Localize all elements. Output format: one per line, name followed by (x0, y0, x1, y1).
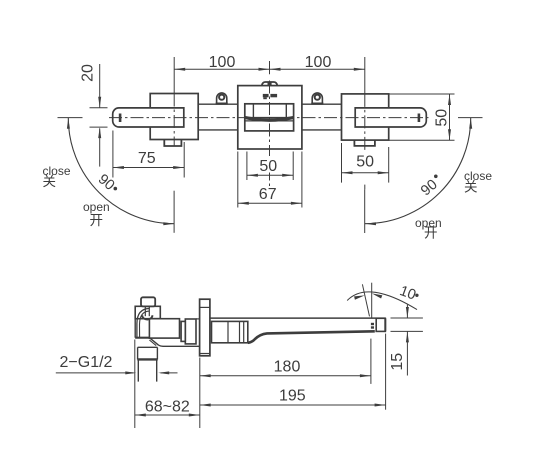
spout root box (212, 321, 248, 342)
svg-text:100: 100 (305, 54, 332, 71)
dimension 50 vertical right: extension lines (389, 94, 455, 140)
dimension 67: extension lines (238, 152, 302, 208)
dimension 100-100: dimension line (174, 68, 365, 70)
arrows of 180 (200, 374, 371, 377)
valve elbow inner arc (137, 309, 150, 338)
centerline right escutcheon vertical (364, 94, 366, 150)
valve stem lines (144, 307, 146, 317)
arrows of left arc (67, 118, 174, 225)
spout root partition 2 (239, 321, 241, 342)
svg-text:50: 50 (356, 154, 374, 171)
arrows of 20 (98, 97, 101, 138)
degree dot right (434, 175, 438, 179)
left 90 arc (68, 118, 174, 224)
centerline horizontal (top view) (109, 117, 430, 119)
spout underside (248, 331, 375, 343)
arrows of 195 (200, 404, 386, 407)
centerline right escutcheon lower dash (364, 185, 366, 190)
svg-text:67: 67 (259, 186, 277, 203)
svg-text:关: 关 (464, 180, 478, 195)
svg-text:195: 195 (279, 388, 306, 405)
10 degree tilted line (362, 284, 369, 316)
top bump right on center plate (271, 82, 278, 85)
arrows of 67 (238, 202, 302, 205)
right escutcheon bottom tab (354, 140, 375, 146)
svg-text:50: 50 (259, 158, 277, 175)
centerline left escutcheon vertical (173, 94, 175, 147)
right escutcheon plate (342, 94, 389, 140)
arrows of 50 vertical (448, 94, 451, 140)
spout root partition 1 (227, 321, 229, 342)
short pipe to wall (196, 318, 200, 320)
centerline center plate vertical mid (269, 173, 271, 187)
dimension 50 center: extension lines (247, 152, 293, 181)
spout aerator slot (371, 323, 374, 329)
right 90 arc (365, 118, 471, 224)
dimension 50 right: extension lines (342, 143, 389, 183)
valve stem seat arc (142, 315, 152, 319)
leader 2-G1/2 (56, 372, 178, 374)
valve chamfer diagonal 2 (149, 340, 156, 346)
spout inner partition right (285, 104, 287, 118)
wire: pipe between left escutcheon and center plate (198, 104, 238, 130)
spout aerator dark band (245, 116, 294, 122)
screw slot on center plate (263, 94, 277, 99)
10 degree reference vertical line (371, 283, 373, 318)
arrows of 2-G1/2 (125, 371, 169, 374)
arrows of 68~82 (135, 414, 200, 417)
left arc close tick (58, 117, 83, 119)
right arc close tick (458, 117, 483, 119)
spout outer box (245, 104, 294, 131)
arrows of 10 degree (354, 293, 382, 299)
spout inner shelf line (245, 117, 294, 119)
left escutcheon bottom tab (164, 140, 181, 147)
arrows of 50 center (247, 174, 293, 177)
spout inner partition left (252, 104, 254, 118)
left handle (rounded lever) (113, 108, 184, 127)
spout tip box (376, 318, 385, 331)
dimension 15: extension lines (391, 305, 423, 376)
valve body left edge (134, 319, 136, 338)
svg-text:180: 180 (274, 359, 301, 376)
arrows of right arc (365, 118, 472, 225)
left handle indicator tick (119, 114, 122, 123)
svg-text:75: 75 (138, 150, 156, 167)
dimension 180: extension line (200, 339, 371, 384)
wall flange top joint (200, 306, 210, 308)
spout tip end face (384, 318, 386, 331)
valve bottom ledge (135, 337, 149, 339)
wall flange (200, 299, 210, 356)
top bump left on center plate (262, 82, 269, 85)
right handle (rounded lever) (355, 108, 426, 127)
dimension 20: extension lines (90, 64, 108, 167)
inlet pipe (137, 347, 157, 381)
arrows of 50 right (342, 171, 389, 174)
svg-text:100: 100 (209, 54, 236, 71)
left arc open tick (173, 191, 175, 233)
dimension 75: extension lines (113, 131, 184, 178)
mounting ear left (216, 93, 228, 104)
wire: pipe between center plate and right escutcheon (302, 104, 342, 130)
spout top line (210, 317, 386, 319)
dimension 68~82: extension lines (135, 340, 200, 429)
svg-text:open: open (83, 200, 110, 214)
10 degree arc (347, 292, 417, 310)
valve underside line to wall (159, 345, 200, 346)
left escutcheon plate (150, 94, 198, 140)
connector block nut (185, 319, 196, 344)
svg-text:50: 50 (433, 109, 450, 127)
svg-text:2−G1/2: 2−G1/2 (60, 354, 113, 371)
dimension 195: extension line (200, 334, 386, 410)
valve elbow inner arc 2 (140, 311, 150, 337)
svg-text:20: 20 (80, 64, 97, 82)
svg-text:68~82: 68~82 (145, 399, 190, 416)
svg-text:15: 15 (389, 353, 406, 371)
arrows of 15 (406, 307, 409, 342)
valve cartridge barrel (149, 319, 179, 338)
center wall plate (238, 86, 302, 149)
svg-text:开: 开 (90, 213, 104, 228)
arrows of 75 (113, 166, 184, 169)
arrows of 100-100 (174, 68, 365, 71)
centerline center plate vertical (269, 81, 271, 157)
right arc open tick (364, 189, 366, 233)
svg-text:关: 关 (43, 174, 57, 189)
right handle indicator tick (418, 114, 421, 123)
wall flange bottom joint (200, 353, 210, 355)
degree dot 10 (415, 294, 418, 297)
dimension 100-100: extension lines (174, 57, 365, 94)
valve knob cap (141, 297, 155, 306)
spout lip line (245, 120, 294, 122)
connector ring nut (181, 321, 185, 341)
mounting ear right (311, 93, 323, 104)
svg-text:开: 开 (424, 226, 438, 241)
valve upper block (135, 306, 160, 318)
valve chamfer diagonal (149, 338, 158, 346)
spout root partition 3 (243, 321, 245, 342)
degree dot left (114, 187, 118, 191)
